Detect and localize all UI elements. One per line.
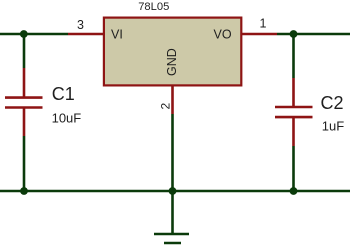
svg-text:1uF: 1uF xyxy=(322,118,344,133)
svg-text:GND: GND xyxy=(165,48,179,76)
svg-text:C1: C1 xyxy=(52,84,75,104)
svg-text:C2: C2 xyxy=(321,93,344,113)
svg-text:1: 1 xyxy=(260,17,267,31)
svg-text:78L05: 78L05 xyxy=(138,1,169,13)
svg-text:3: 3 xyxy=(77,18,84,32)
svg-text:10uF: 10uF xyxy=(52,110,82,125)
svg-text:2: 2 xyxy=(158,103,172,110)
svg-text:VO: VO xyxy=(214,28,232,42)
svg-text:VI: VI xyxy=(111,28,123,42)
